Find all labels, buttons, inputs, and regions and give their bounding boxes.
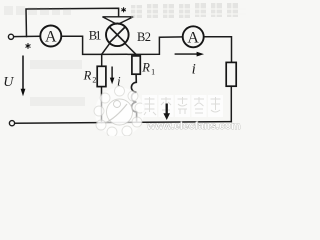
watermark: top-right faint character row [131, 3, 246, 19]
svg-text:A: A [45, 29, 57, 46]
svg-text:B1: B1 [89, 29, 102, 43]
resistor R1 [132, 56, 140, 74]
watermark: elecfans flower logo [94, 86, 145, 137]
wire: R2 bottom lead to bottom wire [101, 87, 103, 123]
watermark: faint mid-left rows [30, 60, 85, 106]
wire: bottom return wire [15, 122, 232, 124]
label R1 [141, 61, 155, 77]
wire: top terminal to ammeter A1 [14, 35, 41, 37]
arrow I (total current) [175, 52, 204, 57]
terminal bottom-left [9, 121, 14, 126]
terminal top-left [8, 34, 13, 39]
wire: R2 top lead from bus [101, 54, 103, 66]
svg-text:B2: B2 [137, 30, 151, 44]
wire: diagonal bus to lamp lower-left [102, 43, 110, 54]
watermark: big embossed character band [142, 95, 223, 117]
inductor L below R1 [131, 74, 136, 123]
ammeter A1 [40, 26, 61, 47]
wire: top bus from riser to voltage-coil drop [26, 8, 119, 36]
arrow U (voltage reference) [21, 56, 26, 97]
arrow I2 (R2 branch current) [110, 67, 115, 85]
svg-text:2: 2 [92, 75, 96, 84]
svg-text:R: R [141, 61, 150, 75]
polarity mark * at coil [122, 8, 126, 12]
wire: diagonal bus to lamp lower-right [125, 43, 136, 54]
svg-text:www.elecfans.com: www.elecfans.com [146, 120, 241, 132]
svg-text:i: i [192, 62, 196, 78]
label R2 [83, 69, 97, 85]
svg-text:A: A [187, 29, 199, 46]
arrow IL (inductor branch current, bold) [163, 104, 170, 121]
polarity mark * at input [26, 44, 30, 49]
wire: R1 top lead from bus [135, 54, 137, 56]
svg-text:1: 1 [151, 67, 155, 76]
wire: bottom bus under lamp [102, 37, 183, 55]
resistor R2 [97, 66, 106, 86]
resistor Z (right load) [226, 62, 236, 86]
wire: A2 to right corner and down to resistor Z [204, 37, 232, 63]
wire: resistor Z to bottom wire [230, 86, 232, 121]
lamp/wattmeter B circle with X [106, 24, 129, 47]
svg-text:U: U [3, 75, 14, 90]
ammeter A2 [183, 26, 204, 47]
wire: A1 to step-down corner to bus [61, 36, 102, 54]
voltage coil funnel above lamp [102, 17, 133, 24]
svg-text:R: R [83, 69, 92, 83]
watermark: top-left faint text row [4, 6, 71, 15]
